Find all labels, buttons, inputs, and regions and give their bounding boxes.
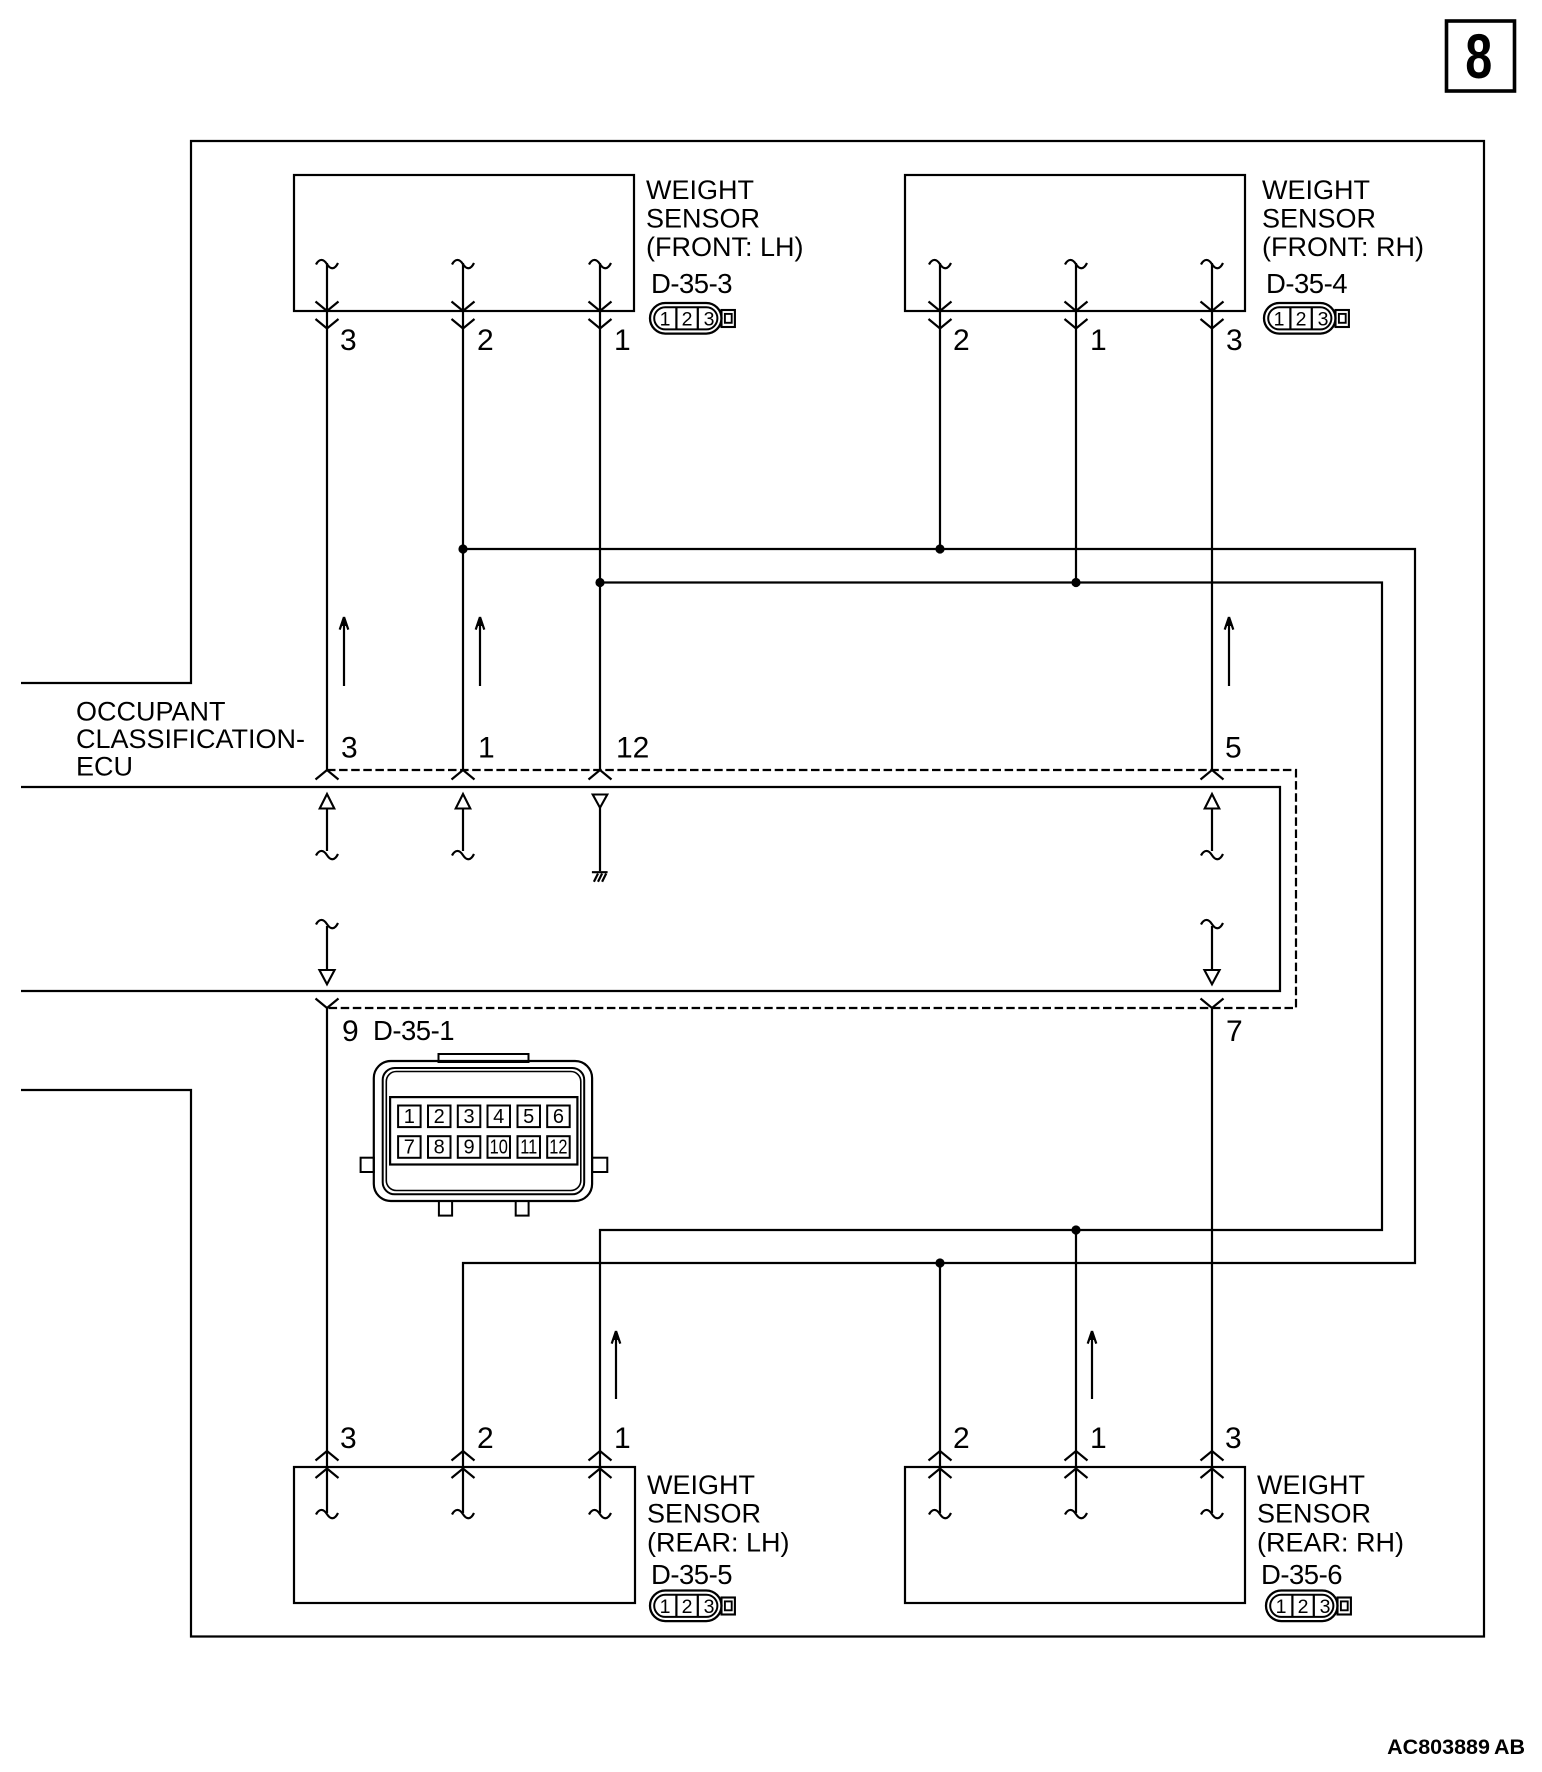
svg-text:3: 3 xyxy=(1226,324,1243,357)
svg-text:3: 3 xyxy=(704,309,715,331)
svg-text:SENSOR: SENSOR xyxy=(646,204,760,234)
svg-text:10: 10 xyxy=(490,1135,508,1158)
svg-text:2: 2 xyxy=(1296,309,1307,331)
svg-text:WEIGHT: WEIGHT xyxy=(647,1470,755,1500)
svg-text:12: 12 xyxy=(549,1135,567,1158)
svg-text:9: 9 xyxy=(342,1015,359,1048)
svg-text:1: 1 xyxy=(1090,1422,1107,1455)
svg-text:3: 3 xyxy=(1225,1422,1242,1455)
svg-text:3: 3 xyxy=(1318,309,1329,331)
svg-text:3: 3 xyxy=(1320,1596,1331,1618)
svg-text:3: 3 xyxy=(341,732,358,765)
svg-text:12: 12 xyxy=(616,732,649,765)
svg-text:1: 1 xyxy=(614,324,631,357)
svg-text:D-35-5: D-35-5 xyxy=(651,1559,732,1590)
svg-text:SENSOR: SENSOR xyxy=(1257,1499,1371,1529)
svg-text:D-35-1: D-35-1 xyxy=(373,1015,454,1046)
svg-text:WEIGHT: WEIGHT xyxy=(646,175,754,205)
svg-text:OCCUPANT: OCCUPANT xyxy=(76,697,226,727)
svg-text:WEIGHT: WEIGHT xyxy=(1257,1470,1365,1500)
svg-text:(REAR: RH): (REAR: RH) xyxy=(1257,1527,1404,1557)
svg-text:3: 3 xyxy=(340,324,357,357)
svg-text:1: 1 xyxy=(660,1596,671,1618)
svg-text:D-35-4: D-35-4 xyxy=(1266,268,1347,299)
svg-text:5: 5 xyxy=(1225,732,1242,765)
svg-text:2: 2 xyxy=(477,1422,494,1455)
svg-text:D-35-3: D-35-3 xyxy=(651,268,732,299)
svg-text:1: 1 xyxy=(1276,1596,1287,1618)
svg-text:SENSOR: SENSOR xyxy=(1262,204,1376,234)
svg-text:8: 8 xyxy=(434,1137,445,1159)
svg-text:2: 2 xyxy=(682,309,693,331)
svg-text:SENSOR: SENSOR xyxy=(647,1499,761,1529)
svg-text:1: 1 xyxy=(1090,324,1107,357)
svg-text:7: 7 xyxy=(404,1137,415,1159)
svg-text:2: 2 xyxy=(682,1596,693,1618)
svg-text:11: 11 xyxy=(520,1135,537,1158)
svg-text:1: 1 xyxy=(478,732,495,765)
svg-text:9: 9 xyxy=(463,1137,474,1159)
svg-text:2: 2 xyxy=(1298,1596,1309,1618)
svg-text:CLASSIFICATION-: CLASSIFICATION- xyxy=(76,724,305,754)
svg-text:8: 8 xyxy=(1465,21,1492,92)
svg-text:2: 2 xyxy=(953,324,970,357)
svg-text:3: 3 xyxy=(463,1106,474,1128)
svg-text:ECU: ECU xyxy=(76,752,133,782)
svg-text:(REAR: LH): (REAR: LH) xyxy=(647,1527,790,1557)
svg-text:3: 3 xyxy=(340,1422,357,1455)
svg-text:(FRONT: LH): (FRONT: LH) xyxy=(646,232,804,262)
svg-text:WEIGHT: WEIGHT xyxy=(1262,175,1370,205)
svg-text:(FRONT: RH): (FRONT: RH) xyxy=(1262,232,1424,262)
svg-text:5: 5 xyxy=(523,1106,534,1128)
svg-text:1: 1 xyxy=(1274,309,1285,331)
svg-text:7: 7 xyxy=(1226,1015,1243,1048)
svg-text:3: 3 xyxy=(704,1596,715,1618)
svg-text:AC803889AB: AC803889AB xyxy=(1387,1735,1525,1759)
svg-text:2: 2 xyxy=(434,1106,445,1128)
svg-text:4: 4 xyxy=(493,1106,504,1128)
svg-text:1: 1 xyxy=(660,309,671,331)
svg-text:2: 2 xyxy=(477,324,494,357)
svg-text:D-35-6: D-35-6 xyxy=(1261,1559,1342,1590)
svg-text:1: 1 xyxy=(614,1422,631,1455)
svg-text:6: 6 xyxy=(553,1106,564,1128)
svg-text:2: 2 xyxy=(953,1422,970,1455)
svg-text:1: 1 xyxy=(404,1106,415,1128)
